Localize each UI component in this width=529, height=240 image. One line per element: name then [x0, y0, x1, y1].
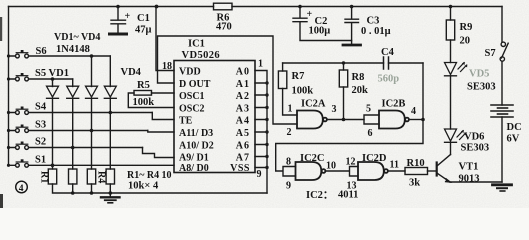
- wire IC2B input tie: [364, 115, 379, 124]
- svg-text:R10: R10: [407, 158, 425, 169]
- wire R5 left to OSC2: [128, 93, 174, 108]
- svg-text:A0: A0: [236, 66, 250, 77]
- wire oscillator top rail: [283, 62, 423, 64]
- wire S3 row step to A11/D3: [148, 131, 174, 133]
- wire R8 top: [343, 63, 345, 70]
- node bus A6: [265, 143, 268, 146]
- wire matrix column 2: [72, 98, 74, 169]
- svg-text:9013: 9013: [459, 174, 480, 185]
- svg-text:20: 20: [460, 36, 471, 47]
- svg-text:S6: S6: [36, 46, 47, 57]
- resistor R10: [405, 168, 428, 175]
- svg-text:1: 1: [288, 104, 293, 115]
- wire matrix column 4: [109, 98, 111, 169]
- svg-text:9: 9: [257, 169, 262, 180]
- switch S2: [9, 142, 143, 150]
- op-amp gate IC2B: [379, 111, 409, 129]
- switch S6: [9, 50, 111, 58]
- svg-text:10: 10: [326, 161, 336, 172]
- wire IC1 right address bus: [255, 71, 267, 194]
- node R2 bottom: [71, 191, 75, 195]
- svg-text:A1: A1: [236, 79, 250, 90]
- capacitor C4: [384, 57, 389, 69]
- svg-text:C1: C1: [137, 13, 150, 24]
- LED VD5: [445, 62, 468, 76]
- diode VD3: [86, 86, 98, 98]
- svg-text:A5: A5: [236, 128, 250, 139]
- wire R8 bottom: [343, 87, 345, 120]
- svg-text:VSS: VSS: [230, 163, 250, 174]
- node IC2B out: [421, 118, 425, 122]
- node S3 x VD3 column: [90, 129, 94, 133]
- IC1 box VD5026: [174, 61, 255, 173]
- svg-text:SE303: SE303: [461, 143, 490, 154]
- node S4 x VD4 column: [109, 111, 113, 115]
- wire R5 right to OSC1: [152, 92, 175, 94]
- resistor R1: [48, 169, 56, 184]
- wire left switch bus: [8, 7, 10, 166]
- wire VD5 to VD6: [450, 76, 452, 129]
- ground at battery minus: [493, 185, 512, 191]
- svg-text:11: 11: [390, 160, 399, 171]
- svg-text:VDD: VDD: [179, 66, 201, 77]
- op-amp gate IC2A: [297, 111, 327, 129]
- svg-text:6: 6: [368, 128, 373, 139]
- svg-text:A8/ D0: A8/ D0: [179, 163, 209, 174]
- wire IC2C out to IC2D: [326, 167, 359, 177]
- wire S4 row step to TE: [152, 113, 174, 120]
- svg-text:100k: 100k: [133, 97, 155, 108]
- svg-text:S3: S3: [35, 120, 46, 131]
- svg-text:1: 1: [258, 59, 263, 70]
- wire R10 to VT1 base: [428, 170, 437, 172]
- diode VD2: [67, 86, 79, 98]
- wire R7 bottom to IC2A pin 1: [283, 89, 297, 116]
- node S1 x VD1 column: [51, 164, 55, 168]
- svg-text:A6: A6: [236, 140, 250, 151]
- svg-text:IC2A: IC2A: [301, 99, 326, 110]
- wire VD2 anode riser: [72, 79, 74, 87]
- wire VD6 to collector: [450, 142, 452, 154]
- switch S4: [9, 107, 153, 115]
- switch S7: [500, 42, 508, 61]
- wire S2 row double step to A9/D1: [143, 148, 175, 158]
- switch S1: [9, 159, 175, 167]
- node R3 bottom: [90, 191, 94, 195]
- svg-text:S2: S2: [35, 137, 46, 148]
- node bus A2: [265, 93, 268, 96]
- wire IC2A output: [327, 119, 364, 121]
- svg-text:47μ: 47μ: [135, 25, 152, 36]
- node S6 row to VD3: [90, 54, 94, 58]
- resistor R5: [134, 91, 152, 96]
- svg-text:0 . 01μ: 0 . 01μ: [361, 26, 391, 37]
- wire right battery column: [501, 7, 503, 183]
- resistor R8: [339, 70, 347, 87]
- capacitor C1: [110, 7, 127, 35]
- svg-text:2: 2: [287, 127, 292, 138]
- svg-text:IC2D: IC2D: [362, 153, 387, 164]
- svg-text:4011: 4011: [338, 190, 358, 201]
- svg-text:10k× 4: 10k× 4: [128, 181, 159, 192]
- diode VD1: [47, 86, 59, 98]
- svg-text:12: 12: [346, 157, 356, 168]
- label circled 4: [16, 181, 28, 194]
- svg-text:IC2C: IC2C: [300, 153, 325, 164]
- wire D OUT route to IC2A pin 2: [158, 36, 298, 124]
- svg-text:R7: R7: [292, 71, 305, 82]
- svg-text:A10/ D2: A10/ D2: [179, 140, 214, 151]
- svg-text:R4: R4: [96, 171, 107, 183]
- svg-text:VD1~ VD4: VD1~ VD4: [54, 32, 100, 43]
- svg-text:A11/ D3: A11/ D3: [179, 128, 213, 139]
- svg-text:IC2：: IC2：: [306, 190, 333, 201]
- wire IC2B output: [409, 119, 423, 121]
- capacitor C3: [343, 7, 361, 46]
- svg-text:560p: 560p: [378, 74, 400, 85]
- svg-text:20k: 20k: [352, 85, 369, 96]
- scan artifact left edge: [0, 17, 2, 41]
- resistor R4: [106, 169, 114, 184]
- wire VD3 anode riser: [91, 56, 93, 87]
- resistor R7: [278, 71, 286, 89]
- svg-text:VD5: VD5: [469, 69, 489, 80]
- node IC2A out R8: [342, 118, 346, 122]
- resistor R9: [446, 20, 454, 40]
- wire VDD feed pin 18: [156, 7, 174, 71]
- node S2 x VD2 column: [71, 146, 75, 150]
- wire ground bus under R1-R4: [53, 184, 268, 193]
- node junction VDD feed on rail: [155, 5, 159, 9]
- svg-text:100k: 100k: [292, 86, 314, 97]
- node junction R9 on rail: [449, 5, 453, 9]
- svg-text:R9: R9: [460, 22, 473, 33]
- svg-text:8: 8: [286, 157, 291, 168]
- wire IC2D out to R10: [388, 170, 405, 172]
- svg-text:3: 3: [332, 104, 337, 115]
- battery B1: [491, 105, 513, 117]
- wire R7 top: [282, 63, 284, 71]
- svg-text:R1~ R4: R1~ R4: [127, 170, 159, 181]
- capacitor C2: [293, 7, 352, 41]
- node S5 row to VD1: [51, 77, 55, 81]
- svg-text:+: +: [307, 9, 313, 20]
- node R8 top junction: [342, 61, 345, 64]
- IC1 pin names: [179, 66, 250, 174]
- svg-text:VD6: VD6: [464, 132, 484, 143]
- svg-text:R1: R1: [39, 171, 50, 183]
- svg-text:VT1: VT1: [459, 162, 479, 173]
- svg-text:SE303: SE303: [467, 82, 496, 93]
- resistor R3: [87, 169, 95, 184]
- svg-text:1N4148: 1N4148: [56, 44, 90, 55]
- svg-text:470: 470: [216, 22, 232, 33]
- wire R9 to VD5: [450, 40, 452, 63]
- resistor R2: [69, 169, 77, 184]
- svg-text:DC: DC: [507, 122, 522, 133]
- svg-text:S7: S7: [485, 48, 496, 59]
- op-amp gate IC2D: [358, 162, 388, 180]
- svg-text:5: 5: [366, 104, 371, 115]
- svg-text:4: 4: [19, 184, 24, 194]
- LED VD6: [445, 129, 467, 142]
- svg-text:S5 VD1: S5 VD1: [35, 68, 69, 79]
- svg-text:VD4: VD4: [121, 67, 142, 78]
- svg-text:3k: 3k: [409, 178, 420, 189]
- wire rail to R9: [450, 7, 452, 21]
- node bus VSS: [265, 166, 268, 169]
- node junction C2 on rail: [298, 5, 302, 9]
- wire VD4 anode riser: [109, 56, 111, 87]
- node junction C1 on rail: [116, 5, 120, 9]
- svg-text:A4: A4: [236, 115, 250, 126]
- svg-text:IC2B: IC2B: [382, 99, 406, 110]
- svg-text:A2: A2: [236, 91, 250, 102]
- wire C4 right riser: [422, 63, 424, 120]
- svg-text:R5: R5: [137, 80, 150, 91]
- node bus A4: [265, 118, 268, 121]
- wire VD1 anode riser: [52, 79, 54, 87]
- switch S3: [9, 125, 148, 133]
- node switch bus tees: [7, 54, 10, 57]
- wire matrix column 1: [52, 98, 54, 169]
- op-amp gate IC2C: [296, 162, 326, 180]
- wire emitter to battery minus: [450, 181, 502, 183]
- svg-text:100μ: 100μ: [309, 26, 331, 37]
- svg-text:TE: TE: [179, 115, 193, 126]
- svg-text:S4: S4: [35, 102, 47, 113]
- node R4 bottom: [109, 191, 113, 195]
- resistor R6: [214, 3, 233, 10]
- svg-text:IC1: IC1: [188, 39, 205, 50]
- svg-text:D OUT: D OUT: [179, 79, 211, 90]
- svg-text:6V: 6V: [507, 134, 520, 145]
- wire feedback to IC2C: [276, 120, 423, 177]
- svg-text:R8: R8: [352, 72, 365, 83]
- node bus A5: [265, 130, 268, 133]
- switch S5: [9, 73, 73, 81]
- transistor VT1: [437, 155, 451, 183]
- svg-text:C4: C4: [381, 47, 395, 58]
- svg-text:A9/ D1: A9/ D1: [179, 152, 209, 163]
- wire matrix column 3: [91, 98, 93, 169]
- svg-text:9: 9: [286, 181, 291, 192]
- svg-text:C3: C3: [367, 16, 380, 27]
- node junction C3 on rail: [350, 5, 354, 9]
- svg-text:4: 4: [411, 106, 416, 117]
- svg-text:A7: A7: [236, 152, 250, 163]
- svg-text:OSC1: OSC1: [179, 91, 205, 102]
- svg-text:10: 10: [162, 170, 172, 181]
- node bus A1: [265, 81, 268, 84]
- diode VD4: [104, 86, 116, 98]
- svg-text:S1: S1: [35, 154, 46, 165]
- svg-text:OSC2: OSC2: [179, 103, 205, 114]
- svg-text:A3: A3: [236, 103, 250, 114]
- ground under R4: [101, 193, 120, 203]
- svg-text:18: 18: [162, 61, 172, 72]
- node bus A3: [265, 106, 268, 109]
- node bus A7: [265, 155, 268, 158]
- wire top supply rail: [9, 6, 503, 8]
- svg-text:+: +: [125, 11, 131, 22]
- svg-text:VD5026: VD5026: [182, 50, 221, 61]
